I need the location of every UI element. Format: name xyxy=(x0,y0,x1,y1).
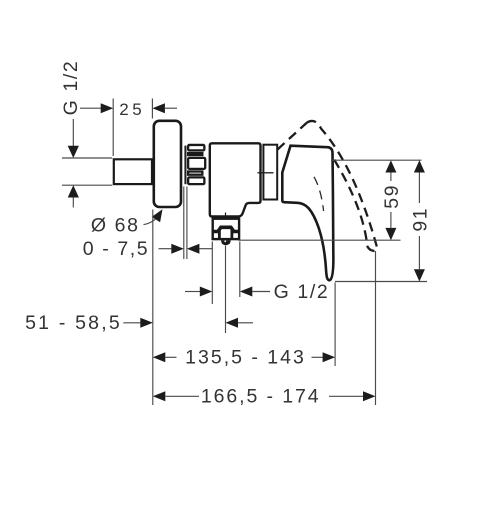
dim 51-58,5 right tail xyxy=(238,322,253,324)
dim 91 lower tail xyxy=(418,236,420,269)
dim 25 right tail xyxy=(165,107,177,109)
dim 59 arrow down xyxy=(385,228,396,240)
body parting dash xyxy=(258,172,274,174)
dim 59 upper tail xyxy=(390,172,392,181)
svg-text:G 1/2: G 1/2 xyxy=(60,60,82,116)
nipple highlight xyxy=(224,240,226,242)
dim 25 arrow right xyxy=(101,103,114,113)
svg-text:G 1/2: G 1/2 xyxy=(274,281,330,303)
dim 0-7,5 left tail xyxy=(159,248,172,250)
dim 0-7,5 right tail xyxy=(199,248,212,250)
dim 166,5-174 arrow left xyxy=(153,391,166,401)
outlet union nut body xyxy=(213,219,239,239)
svg-text:25: 25 xyxy=(119,100,145,119)
raised handle dashed outline xyxy=(278,121,377,251)
dim 51-58,5 arrow right xyxy=(140,318,153,328)
handle crease xyxy=(314,177,324,211)
stub top extension line xyxy=(62,157,112,159)
outlet nut shoulders xyxy=(213,227,239,231)
knurled union nut band4 xyxy=(188,172,202,175)
svg-text:91: 91 xyxy=(410,207,432,232)
knurled union nut (wall side) band1 xyxy=(188,145,204,150)
dim G1/2 outlet arrow right xyxy=(200,287,213,297)
dim G1/2 outlet arrow left xyxy=(240,287,253,297)
handle lever xyxy=(282,146,333,281)
dashed tip extension line xyxy=(375,251,377,405)
knurled union nut band2 xyxy=(188,153,202,155)
dim 135,5-143 right tail xyxy=(312,356,323,358)
dim 25 arrow left xyxy=(152,103,165,113)
knurled union nut band3 xyxy=(188,158,205,169)
dim 91 arrow down xyxy=(414,269,425,281)
outlet centerline extension xyxy=(225,246,227,334)
dim 91 arrow up xyxy=(414,160,425,172)
arrow down to stub top xyxy=(68,146,79,158)
escutcheon face extension line (long) xyxy=(152,210,154,406)
dim 166,5-174 left tail xyxy=(165,395,199,397)
svg-text:59: 59 xyxy=(381,184,403,209)
lever bottom extension line xyxy=(335,281,427,283)
outlet left extension line xyxy=(211,242,213,305)
arrow up to stub bottom xyxy=(68,185,79,197)
dim 59 arrow up xyxy=(385,160,396,172)
dim 135,5-143 arrow right xyxy=(323,352,336,362)
dim 25 extension line left xyxy=(112,99,114,157)
dim 135,5-143 arrow left xyxy=(153,352,166,362)
dim 51-58,5 left tail xyxy=(123,322,140,324)
valve body xyxy=(210,143,261,216)
svg-text:51 - 58,5: 51 - 58,5 xyxy=(25,312,122,334)
svg-text:135,5 - 143: 135,5 - 143 xyxy=(185,347,306,369)
dim 166,5-174 right tail xyxy=(329,395,363,397)
dim 0-7,5 arrow left xyxy=(187,244,200,254)
wall supply stub xyxy=(114,159,152,184)
outlet nut face divider left xyxy=(218,229,221,240)
dim 25 extension line right xyxy=(151,99,153,119)
washer band between escutcheon and nut xyxy=(184,146,186,185)
O68 arrowhead xyxy=(152,209,163,222)
dim 51-58,5 arrow left xyxy=(226,318,239,328)
knurled union nut band5 xyxy=(188,177,204,184)
svg-text:166,5 - 174: 166,5 - 174 xyxy=(201,386,321,408)
svg-text:Ø 68: Ø 68 xyxy=(91,215,140,237)
dim G1/2 outlet left tail xyxy=(185,291,200,293)
leader from G1/2 label xyxy=(72,119,74,146)
cartridge adapter ring xyxy=(263,145,277,200)
stub bottom extension line xyxy=(62,184,112,186)
outlet centerline tick xyxy=(225,213,227,223)
dim G1/2 outlet right tail xyxy=(252,291,270,293)
dim 135,5-143 left tail xyxy=(165,356,176,358)
outlet right extension line xyxy=(239,242,241,298)
outlet nipple tip xyxy=(221,240,231,245)
lever tip extension line xyxy=(334,283,336,367)
dim 0-7,5 extension line left xyxy=(183,187,185,260)
handle top extension line xyxy=(331,159,422,161)
dim 59 lower tail xyxy=(390,212,392,228)
O68 leader xyxy=(144,219,156,224)
dim 25 left tail xyxy=(80,107,101,109)
dim 0-7,5 arrow right xyxy=(171,244,184,254)
escutcheon (wall plate, O68) xyxy=(154,121,181,207)
dim 166,5-174 arrow right xyxy=(363,391,376,401)
dim 91 upper tail xyxy=(418,172,420,203)
dim 0-7,5 extension line right xyxy=(186,187,188,260)
outlet nut face divider right xyxy=(230,229,233,240)
svg-text:0 - 7,5: 0 - 7,5 xyxy=(83,238,149,260)
tail below arrow xyxy=(72,197,74,207)
outlet bottom extension line xyxy=(238,239,401,241)
